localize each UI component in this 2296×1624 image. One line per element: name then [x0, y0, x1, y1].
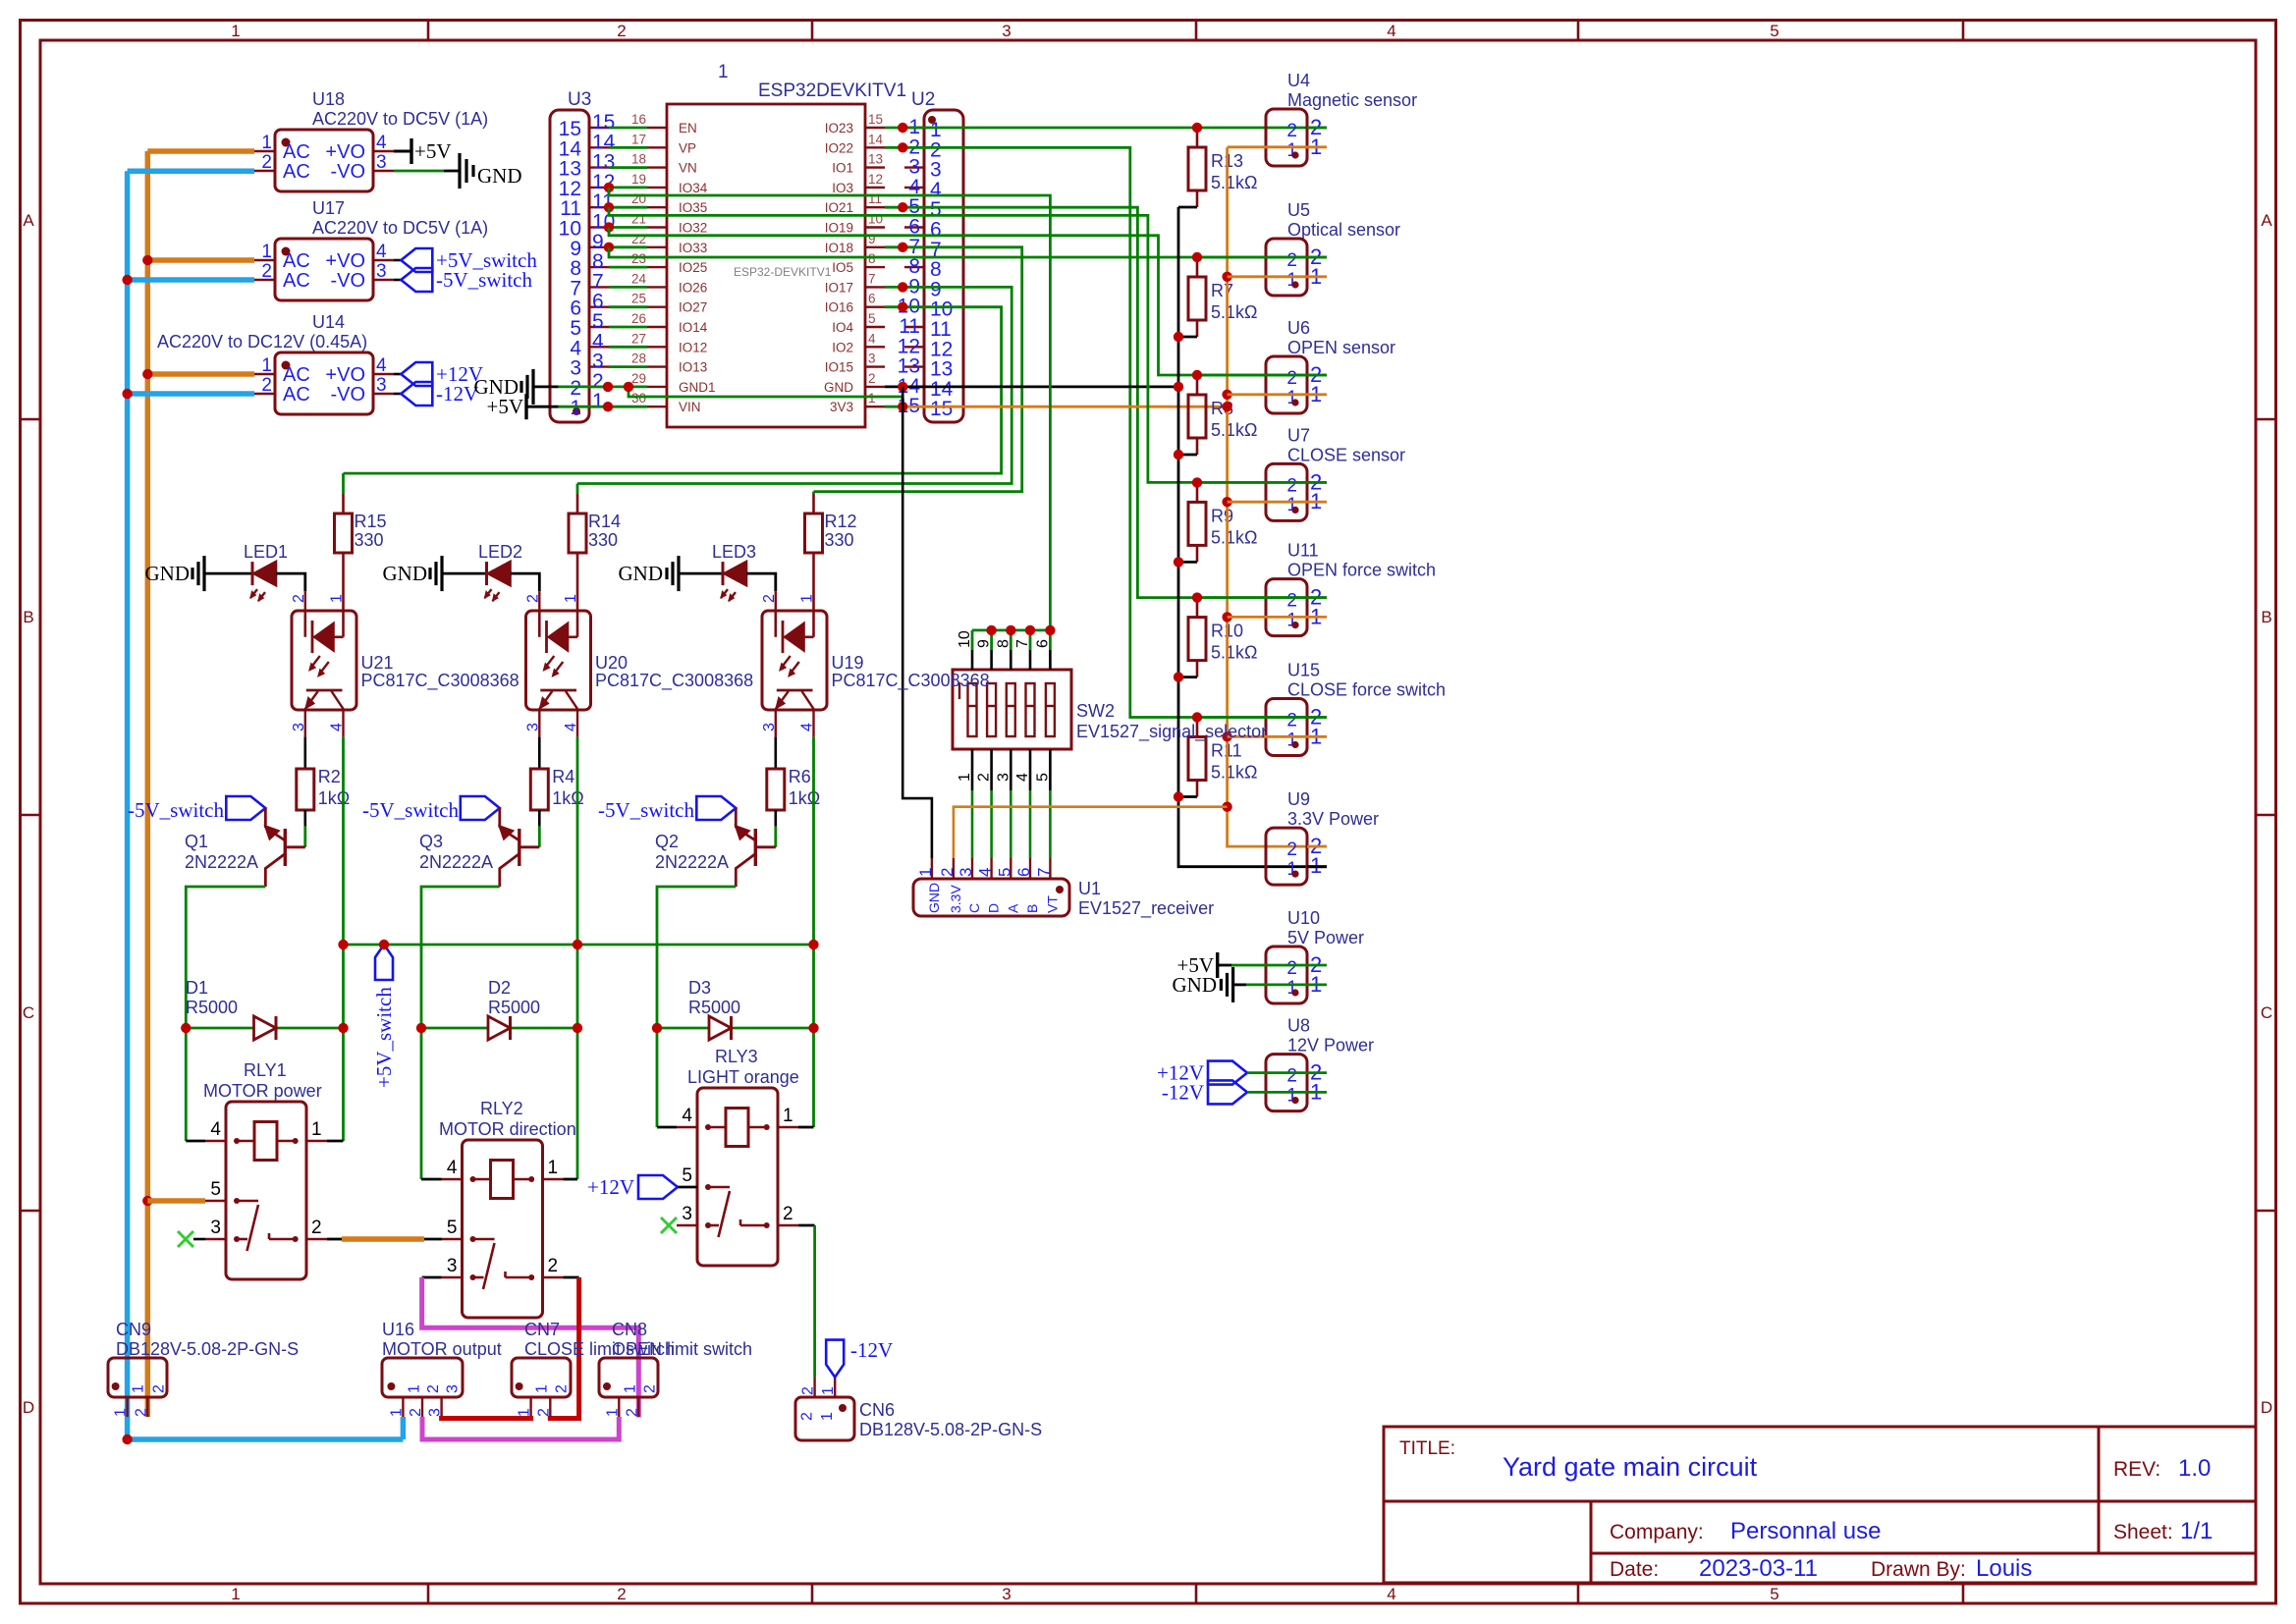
wire Q1 collector to relay [186, 887, 265, 1141]
svg-text:2: 2 [1286, 475, 1297, 496]
svg-text:R15: R15 [355, 512, 387, 531]
svg-text:1: 1 [592, 390, 604, 412]
svg-text:U5: U5 [1287, 200, 1310, 220]
svg-text:1: 1 [261, 133, 272, 153]
wire IO32 to OPEN sensor U6 [609, 228, 1327, 376]
svg-text:VT: VT [1044, 895, 1060, 913]
svg-text:5.1kΩ: 5.1kΩ [1211, 302, 1257, 322]
svg-text:3: 3 [427, 1408, 444, 1417]
svg-text:R14: R14 [588, 512, 621, 531]
svg-text:IO18: IO18 [825, 241, 853, 255]
wire RLY3 pin 2 green to CN6 [798, 1225, 815, 1378]
svg-text:9: 9 [868, 232, 876, 246]
wire GND1 jog to U2 pin 15 row [629, 387, 902, 406]
svg-text:5: 5 [447, 1218, 458, 1238]
svg-text:3V3: 3V3 [830, 400, 853, 414]
connector CN8 OPEN limit switch [599, 1320, 752, 1417]
svg-text:2: 2 [761, 594, 778, 603]
svg-text:R5000: R5000 [186, 998, 238, 1017]
svg-text:4: 4 [447, 1158, 458, 1178]
title text Yard gate main circuit [1503, 1452, 1758, 1482]
wire U21 pin 4 to +5V_switch bus and RLY1 pin 1 [342, 737, 345, 1141]
svg-text:+VO: +VO [325, 141, 365, 163]
svg-text:330: 330 [355, 530, 384, 550]
connector U7 CLOSE sensor [1266, 425, 1405, 520]
svg-text:7: 7 [868, 271, 876, 286]
svg-text:LED3: LED3 [712, 542, 756, 562]
svg-text:VP: VP [679, 140, 696, 155]
LED LED3 [712, 542, 756, 601]
wire RLY2 pin 3 magenta to CN8 pin 2 [422, 1277, 639, 1418]
svg-text:Q2: Q2 [655, 832, 679, 851]
svg-text:13: 13 [868, 152, 883, 167]
resistor R13 5.1k pull-up [1188, 128, 1257, 207]
wire SW2 select bus [972, 630, 1050, 650]
svg-text:AC: AC [283, 384, 310, 406]
svg-text:10: 10 [868, 212, 883, 227]
svg-text:C: C [23, 1003, 34, 1022]
resistor R10 5.1k pull-up [1188, 598, 1257, 677]
junction dots +5V_switch bus [338, 940, 818, 949]
svg-text:GND: GND [477, 164, 522, 188]
wire IO22 to CLOSE force switch U15 [902, 147, 1327, 717]
svg-text:U17: U17 [312, 198, 345, 218]
svg-text:IO17: IO17 [825, 280, 853, 295]
svg-text:PC817C_C3008368: PC817C_C3008368 [832, 671, 990, 691]
AC-DC module U17 [254, 198, 488, 300]
svg-text:-5V_switch: -5V_switch [436, 268, 532, 292]
svg-text:R5000: R5000 [488, 998, 540, 1017]
border row labels left [23, 211, 34, 1417]
svg-text:IO1: IO1 [832, 161, 853, 176]
svg-text:2: 2 [783, 1204, 793, 1224]
svg-text:D3: D3 [688, 978, 711, 998]
svg-text:2: 2 [800, 1386, 817, 1395]
svg-text:2: 2 [1286, 368, 1297, 389]
junction dots D2 [416, 1023, 582, 1033]
svg-text:330: 330 [825, 530, 854, 550]
svg-text:1: 1 [916, 868, 935, 877]
wire U9 pin 2 orange [1307, 845, 1327, 848]
svg-text:1: 1 [388, 1408, 405, 1417]
svg-text:IO4: IO4 [832, 320, 853, 335]
svg-text:5: 5 [1770, 1585, 1778, 1603]
svg-text:27: 27 [631, 331, 646, 346]
svg-text:GND: GND [383, 562, 428, 585]
svg-text:3: 3 [957, 868, 975, 877]
svg-text:U20: U20 [595, 653, 628, 673]
svg-text:OPEN force switch: OPEN force switch [1287, 561, 1436, 580]
wire U7 pin 2 row [1197, 481, 1327, 484]
wire Q2 collector to relay [657, 887, 736, 1127]
svg-text:+5V: +5V [414, 139, 452, 163]
no-connect X at RLY3 pin 3 [661, 1218, 677, 1233]
svg-text:1: 1 [819, 1412, 836, 1421]
wire RLY3 pin 1 leg [798, 1126, 814, 1129]
wire U4 pin 1 orange [1228, 145, 1327, 148]
svg-text:1: 1 [957, 773, 973, 782]
wire AC N cyan vertical bus [128, 171, 404, 1439]
svg-text:5.1kΩ: 5.1kΩ [1211, 173, 1257, 192]
wire 3V3 row orange to 3.3V bus [902, 406, 1227, 408]
svg-text:2: 2 [624, 1408, 640, 1417]
svg-text:R4: R4 [552, 767, 574, 786]
junction dots on GND bus [1174, 332, 1183, 802]
resistor R14 330 [569, 484, 621, 612]
ground symbol GND at U3 pin 2 [474, 369, 559, 405]
svg-text:15: 15 [868, 112, 883, 127]
svg-text:U3: U3 [568, 89, 591, 110]
svg-text:23: 23 [631, 251, 646, 266]
resistor R12 330 [805, 492, 857, 611]
svg-text:IO26: IO26 [679, 280, 707, 295]
transistor Q3 2N2222A [419, 826, 539, 888]
wire IO33 to Optical sensor U5 [609, 247, 1327, 257]
svg-text:+VO: +VO [325, 250, 365, 272]
resistor R2 1k [297, 737, 350, 847]
dip switch SW2 EV1527_signal_selector [953, 630, 1267, 782]
svg-text:6: 6 [868, 292, 876, 306]
wire U16 pin 1 cyan from CN9 [401, 1417, 407, 1439]
svg-text:CLOSE force switch: CLOSE force switch [1287, 680, 1446, 700]
svg-text:4: 4 [376, 355, 387, 376]
svg-text:30: 30 [631, 391, 646, 406]
LED LED1 [244, 542, 288, 601]
svg-text:2: 2 [976, 773, 993, 782]
svg-text:U7: U7 [1287, 425, 1310, 445]
svg-text:CN8: CN8 [612, 1320, 647, 1339]
svg-text:EV1527_receiver: EV1527_receiver [1078, 898, 1214, 919]
svg-text:VIN: VIN [679, 400, 701, 414]
svg-text:10: 10 [957, 630, 973, 648]
junction dots D1 [181, 1023, 349, 1033]
resistor R4 1k [530, 737, 583, 847]
svg-text:C: C [966, 903, 982, 913]
svg-text:25: 25 [631, 292, 646, 306]
svg-text:Company:: Company: [1610, 1521, 1704, 1543]
svg-text:AC: AC [283, 141, 310, 163]
svg-text:IO19: IO19 [825, 221, 853, 236]
svg-text:U4: U4 [1287, 71, 1310, 90]
svg-text:2: 2 [133, 1408, 149, 1417]
svg-text:B: B [1024, 904, 1040, 913]
svg-text:28: 28 [631, 352, 646, 366]
svg-text:CN9: CN9 [116, 1320, 151, 1339]
wire 3.3V to U1 pin 2 [954, 807, 1228, 858]
svg-text:R7: R7 [1211, 281, 1233, 300]
svg-text:1: 1 [231, 1585, 240, 1603]
svg-text:PC817C_C3008368: PC817C_C3008368 [361, 671, 519, 691]
junction dots U3 pins 12 11 10 9 [604, 183, 614, 252]
svg-text:20: 20 [631, 191, 646, 206]
wire U7 pin 1 orange [1228, 501, 1327, 504]
svg-text:IO34: IO34 [679, 181, 708, 195]
power flag +5V at U10 pin 2 [1176, 952, 1231, 978]
svg-text:PC817C_C3008368: PC817C_C3008368 [595, 671, 753, 691]
svg-text:1: 1 [799, 594, 816, 603]
connector U9 3.3V Power [1266, 789, 1379, 885]
connector U15 CLOSE force switch [1266, 661, 1446, 756]
svg-text:2N2222A: 2N2222A [655, 852, 729, 872]
optocoupler U19 PC817C_C3008368 [761, 591, 990, 736]
svg-text:4: 4 [1387, 22, 1395, 40]
net flag -12V at U14 pin 3 [394, 382, 478, 406]
svg-text:RLY1: RLY1 [244, 1060, 287, 1080]
svg-text:IO3: IO3 [832, 181, 853, 195]
svg-text:U21: U21 [361, 653, 394, 673]
svg-text:2: 2 [938, 868, 957, 877]
net flag -12V at U8 pin 1 [1162, 1080, 1266, 1104]
connector U11 OPEN force switch [1266, 541, 1436, 636]
svg-text:D: D [23, 1398, 34, 1417]
wire U19 pin 4 to bus and RLY3 pin 1 [812, 737, 815, 1127]
wire segments ESP32 to U2 [885, 128, 904, 406]
GND bus black vertical right column [1178, 207, 1327, 867]
svg-text:8: 8 [868, 251, 876, 266]
wire U10 pin 2 green [1231, 964, 1327, 967]
net flag -12V at CN6 pin 1 [826, 1338, 893, 1378]
wire IO18 to R12 channel [814, 247, 1022, 492]
svg-text:1: 1 [231, 22, 240, 40]
svg-text:AC: AC [283, 270, 310, 292]
svg-text:5.1kΩ: 5.1kΩ [1211, 420, 1257, 440]
svg-text:REV:: REV: [2113, 1458, 2160, 1481]
svg-text:RLY3: RLY3 [715, 1047, 758, 1066]
svg-text:-5V_switch: -5V_switch [598, 798, 694, 822]
svg-text:5: 5 [210, 1179, 221, 1200]
relay RLY1 MOTOR power [203, 1060, 327, 1279]
svg-text:CN7: CN7 [524, 1320, 560, 1339]
connector CN9 DB128V-5.08-2P-GN-S [108, 1320, 299, 1417]
optocoupler U21 PC817C_C3008368 [291, 591, 519, 736]
wire LED2 to optocoupler pin 2 [511, 573, 540, 591]
wire U16 pin 2 magenta to CN8 pin 1 [422, 1417, 619, 1439]
wire R13 bottom to GND bus [1178, 206, 1197, 209]
svg-text:LED2: LED2 [478, 542, 522, 562]
relay RLY3 LIGHT orange [677, 1047, 799, 1266]
svg-text:2: 2 [868, 371, 876, 386]
svg-text:-5V_switch: -5V_switch [128, 798, 224, 822]
svg-text:5.1kΩ: 5.1kΩ [1211, 643, 1257, 663]
title block REV [2113, 1455, 2211, 1482]
svg-text:Sheet:: Sheet: [2113, 1521, 2173, 1543]
svg-text:2: 2 [799, 1412, 816, 1421]
svg-text:2: 2 [311, 1218, 322, 1238]
wire U15 pin 1 orange [1228, 735, 1327, 738]
svg-text:LED1: LED1 [244, 542, 288, 562]
svg-text:U14: U14 [312, 312, 345, 332]
svg-text:29: 29 [631, 371, 646, 386]
svg-text:330: 330 [588, 530, 618, 550]
connector U10 5V Power [1266, 908, 1364, 1003]
optocoupler U20 PC817C_C3008368 [524, 591, 753, 736]
wire R11 bottom to GND bus [1178, 795, 1197, 798]
resistor R7 5.1k pull-up [1188, 257, 1257, 337]
wire U5 pin 2 row [1197, 256, 1327, 259]
svg-text:4: 4 [376, 242, 387, 262]
wire U8 pin 1 green [1266, 1091, 1327, 1094]
svg-text:Q3: Q3 [419, 832, 443, 851]
svg-text:U11: U11 [1287, 541, 1319, 561]
transistor Q2 2N2222A [655, 826, 776, 888]
wire U16 pin 3 red to CN7 pin 1 [442, 1416, 531, 1419]
svg-text:3: 3 [447, 1256, 458, 1276]
svg-text:1kΩ: 1kΩ [318, 788, 350, 808]
wire IO17 to R14 channel [577, 287, 1011, 483]
junction dots on AC L bus [142, 255, 152, 1206]
svg-text:U6: U6 [1287, 318, 1310, 338]
svg-text:1/1: 1/1 [2180, 1518, 2213, 1544]
wire U10 pin 1 green [1246, 984, 1327, 987]
wire R7 bottom to GND bus [1178, 336, 1197, 339]
junction dot U7 signal [1192, 477, 1202, 487]
svg-text:3: 3 [682, 1204, 692, 1224]
svg-text:Optical sensor: Optical sensor [1287, 220, 1400, 240]
svg-text:12: 12 [868, 172, 883, 187]
border column labels top [231, 22, 1778, 40]
svg-text:+5V: +5V [486, 395, 523, 418]
junction dot U4 signal [1192, 123, 1202, 133]
diode D1 R5000 [186, 978, 344, 1040]
svg-text:-12V: -12V [1162, 1080, 1204, 1104]
no-connect X at RLY1 pin 3 [178, 1231, 205, 1247]
svg-text:3: 3 [1002, 1585, 1011, 1603]
svg-text:AC220V to DC5V (1A): AC220V to DC5V (1A) [312, 109, 488, 129]
wire U15 pin 2 row [1197, 716, 1327, 719]
connector CN7 CLOSE limit switch [512, 1320, 675, 1417]
svg-text:7: 7 [1014, 639, 1031, 648]
svg-text:R2: R2 [318, 767, 341, 786]
svg-text:IO21: IO21 [825, 200, 853, 215]
svg-text:1: 1 [406, 1384, 422, 1393]
svg-text:AC: AC [283, 250, 310, 272]
svg-text:5: 5 [995, 868, 1013, 877]
svg-text:B: B [23, 608, 33, 626]
svg-text:D: D [2261, 1398, 2272, 1417]
svg-text:U10: U10 [1287, 908, 1320, 928]
svg-text:VN: VN [679, 161, 697, 176]
wire IO35 to CLOSE sensor U7 [609, 207, 1327, 482]
LED LED2 [478, 542, 522, 601]
svg-text:5: 5 [1770, 22, 1778, 40]
svg-text:5: 5 [682, 1165, 692, 1186]
svg-text:+VO: +VO [325, 364, 365, 386]
wire GND row to resistor bus [902, 385, 1178, 388]
header connector U3 [550, 89, 616, 422]
svg-text:A: A [2261, 211, 2272, 230]
wire RLY2 pin 1 leg [564, 1178, 578, 1181]
svg-text:4: 4 [1387, 1585, 1395, 1603]
svg-text:-VO: -VO [330, 161, 365, 183]
connector U6 OPEN sensor [1266, 318, 1395, 413]
svg-text:3: 3 [445, 1384, 462, 1393]
svg-text:IO22: IO22 [825, 140, 853, 155]
svg-text:IO12: IO12 [679, 340, 707, 354]
svg-text:17: 17 [631, 132, 646, 146]
svg-text:5.1kΩ: 5.1kΩ [1211, 763, 1257, 783]
svg-text:1: 1 [534, 1384, 551, 1393]
svg-text:U9: U9 [1287, 789, 1310, 809]
svg-text:4: 4 [1014, 773, 1031, 782]
junction dot U6 signal [1192, 370, 1202, 380]
wire AC L orange vertical bus [147, 151, 254, 1417]
svg-text:3: 3 [868, 352, 876, 366]
svg-text:19: 19 [631, 172, 646, 187]
svg-text:AC220V to DC5V (1A): AC220V to DC5V (1A) [312, 218, 488, 238]
svg-text:2: 2 [1286, 121, 1297, 141]
svg-text:D2: D2 [488, 978, 511, 998]
junction dots D3 [652, 1023, 819, 1033]
wire U6 pin 1 orange [1228, 393, 1327, 396]
svg-text:IO23: IO23 [825, 121, 853, 135]
svg-text:2: 2 [1286, 711, 1297, 731]
header connector U2 [898, 89, 963, 422]
svg-text:5.1kΩ: 5.1kΩ [1211, 527, 1257, 547]
svg-text:DB128V-5.08-2P-GN-S: DB128V-5.08-2P-GN-S [116, 1339, 299, 1359]
wire Q3 collector into RLY2 pin 4 [421, 1178, 442, 1181]
svg-text:2: 2 [617, 22, 626, 40]
svg-text:-VO: -VO [330, 270, 365, 292]
AC-DC module U14 [157, 312, 394, 414]
svg-text:2: 2 [1286, 250, 1297, 271]
svg-text:1: 1 [113, 1408, 130, 1417]
wire LED1 to optocoupler pin 2 [276, 573, 305, 591]
svg-text:2: 2 [535, 1408, 552, 1417]
border column labels bottom [231, 1585, 1778, 1603]
svg-text:1: 1 [563, 594, 579, 603]
svg-text:EN: EN [679, 121, 697, 135]
svg-text:R6: R6 [789, 767, 811, 786]
power flag +5V at U3 pin 1 [486, 394, 558, 419]
wire U20 pin 4 to bus and RLY2 pin 1 [576, 737, 579, 1179]
svg-text:U16: U16 [382, 1320, 414, 1339]
svg-text:Q1: Q1 [185, 832, 208, 851]
resistor R9 5.1k pull-up [1188, 482, 1257, 562]
svg-text:CN6: CN6 [859, 1400, 895, 1420]
svg-text:IO15: IO15 [825, 360, 853, 375]
svg-text:IO27: IO27 [679, 300, 707, 315]
svg-text:IO35: IO35 [679, 200, 707, 215]
wire IO34 to SW2 select bus [609, 188, 1050, 630]
junction dots on 3.3V bus [1222, 272, 1231, 812]
svg-text:3: 3 [1002, 22, 1011, 40]
wire U4 pin 2 row [1307, 127, 1327, 130]
wire segments U3 to ESP32 [609, 128, 647, 406]
svg-text:2: 2 [261, 152, 272, 173]
net flag -5V_switch at U17 pin 3 [394, 268, 532, 292]
connector CN6 DB128V-5.08-2P-GN-S [795, 1378, 1042, 1440]
svg-text:R9: R9 [1211, 506, 1233, 525]
junction dot U11 signal [1192, 592, 1202, 602]
diode D3 R5000 [657, 978, 814, 1040]
svg-text:3.3V Power: 3.3V Power [1287, 809, 1379, 829]
svg-text:R12: R12 [825, 512, 857, 531]
resistor R8 5.1k pull-up [1188, 375, 1257, 455]
svg-text:21: 21 [631, 212, 646, 227]
svg-text:CLOSE sensor: CLOSE sensor [1287, 445, 1405, 464]
junction dots on U2 pin rows [898, 123, 907, 412]
svg-text:2: 2 [1286, 1066, 1297, 1087]
svg-text:IO25: IO25 [679, 260, 707, 275]
mcu module ESP32DEVKITV1 [631, 62, 906, 427]
svg-text:2N2222A: 2N2222A [185, 852, 258, 872]
wire RLY1 pin 2 to RLY2 pin 5 orange [327, 1238, 442, 1241]
net flag +5V_switch at U17 pin 4 [394, 248, 537, 272]
svg-text:1: 1 [261, 242, 272, 262]
svg-text:8: 8 [995, 639, 1011, 648]
svg-text:2: 2 [1286, 839, 1297, 860]
svg-text:5: 5 [1034, 773, 1051, 782]
